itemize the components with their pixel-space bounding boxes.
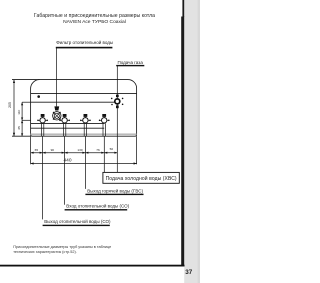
svg-text:50: 50 [110, 147, 114, 151]
svg-text:76: 76 [96, 148, 100, 152]
svg-text:NAVIEN Ace ТУРБО Coaxial: NAVIEN Ace ТУРБО Coaxial [63, 19, 126, 25]
svg-text:Подача холодной воды (ХВС): Подача холодной воды (ХВС) [106, 175, 177, 182]
svg-text:Выход отопительной воды (СО): Выход отопительной воды (СО) [44, 218, 111, 224]
svg-text:440: 440 [63, 157, 71, 163]
svg-text:130: 130 [77, 148, 82, 152]
svg-text:Выход горячей воды (ГВС): Выход горячей воды (ГВС) [87, 187, 143, 193]
svg-text:Подача газа: Подача газа [118, 60, 144, 65]
svg-text:технических характеристик (стр: технических характеристик (стр.52). [13, 250, 77, 254]
svg-text:Фильтр отопительной воды: Фильтр отопительной воды [56, 39, 113, 45]
svg-text:90: 90 [51, 148, 55, 152]
svg-text:Присоединительные диаметры тру: Присоединительные диаметры труб указаны … [13, 245, 111, 249]
svg-text:37: 37 [185, 269, 193, 276]
svg-text:110: 110 [17, 110, 21, 115]
svg-text:Габаритные и присоединительные: Габаритные и присоединительные размеры к… [34, 13, 155, 19]
svg-text:205: 205 [8, 102, 12, 108]
svg-text:65: 65 [35, 148, 39, 152]
svg-text:65: 65 [17, 126, 21, 130]
svg-text:Вход отопительной воды (СО): Вход отопительной воды (СО) [66, 203, 129, 209]
